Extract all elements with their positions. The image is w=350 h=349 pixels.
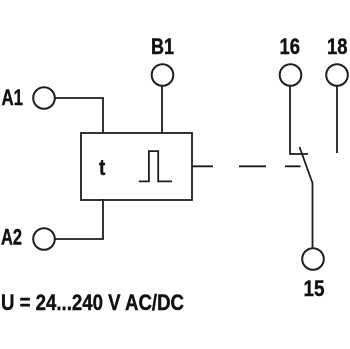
terminal A1: [33, 87, 55, 109]
terminal A2: [33, 228, 55, 250]
svg-text:U = 24...240 V AC/DC: U = 24...240 V AC/DC: [1, 290, 184, 315]
svg-text:15: 15: [304, 276, 325, 301]
svg-text:A1: A1: [2, 85, 24, 110]
svg-text:16: 16: [280, 34, 301, 59]
terminal 15: [302, 248, 324, 270]
terminal 18: [326, 64, 348, 86]
svg-text:18: 18: [327, 34, 348, 59]
wire blade to terminal 15: [312, 182, 314, 248]
dashed actuation link: [192, 165, 301, 167]
wire 16 with fixed contact tick: [290, 86, 308, 155]
pulse symbol: [139, 151, 172, 181]
svg-text:t: t: [99, 155, 106, 180]
terminal B1: [152, 64, 174, 86]
svg-text:A2: A2: [1, 225, 22, 250]
svg-text:B1: B1: [151, 34, 174, 59]
wire A2 to timer box: [55, 199, 104, 239]
wire 18 (open contact): [336, 86, 338, 154]
wire A1 to timer box: [55, 98, 104, 133]
terminal 16: [280, 64, 302, 86]
wire B1 to timer box: [161, 86, 163, 134]
timer box: [81, 133, 192, 200]
switch blade (changeover contact): [300, 147, 313, 183]
